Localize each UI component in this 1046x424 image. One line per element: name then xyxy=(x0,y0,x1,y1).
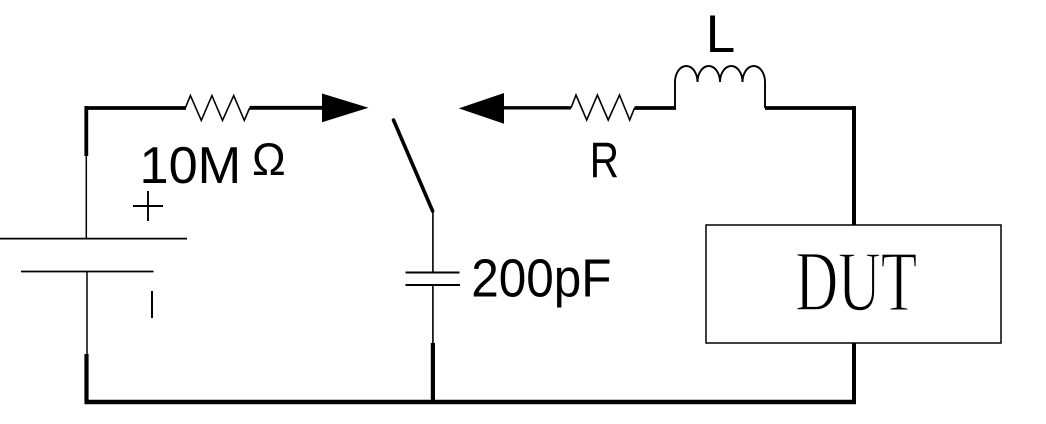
DUT box xyxy=(706,225,1001,343)
wire: capacitor to bottom rail thick xyxy=(431,343,435,402)
battery BT1 bottom plate xyxy=(21,271,154,273)
battery BT1 top plate xyxy=(0,238,187,240)
wire: left vertical thick xyxy=(84,106,88,156)
battery - polarity label xyxy=(151,291,153,318)
wire: top-left horizontal xyxy=(85,106,187,110)
wire: DUT to bottom rail xyxy=(852,343,856,402)
svg-text:10M: 10M xyxy=(140,137,242,195)
wire: battery to bottom rail thick xyxy=(84,354,88,402)
wire: switch to capacitor xyxy=(432,209,434,273)
resistor R2 zigzag xyxy=(571,95,635,120)
wire: bottom rail xyxy=(85,400,857,405)
wire: battery bottom lead thin xyxy=(86,272,88,355)
arrowhead toward switch (left-pointing) xyxy=(459,93,504,124)
battery + polarity label xyxy=(133,191,163,221)
svg-text:L: L xyxy=(706,5,735,64)
svg-text:200pF: 200pF xyxy=(471,248,611,308)
svg-text:Ω: Ω xyxy=(252,134,286,185)
capacitor C1 top plate xyxy=(406,272,460,274)
inductor L1 xyxy=(675,66,765,108)
capacitor C1 bottom plate xyxy=(406,284,461,286)
wire: left vertical thin xyxy=(85,156,87,239)
wire: arrow to resistor R2 xyxy=(500,106,571,109)
resistor R1 zigzag xyxy=(185,96,249,121)
wire: inductor to top-right corner xyxy=(765,106,855,110)
wire: capacitor bottom lead thin xyxy=(432,285,434,343)
switch S1 blade xyxy=(394,120,433,211)
wire: resistor R1 to arrow xyxy=(250,106,330,110)
arrowhead toward switch (right-pointing) xyxy=(322,94,369,123)
svg-text:DUT: DUT xyxy=(795,233,917,328)
wire: resistor R2 to inductor xyxy=(635,106,677,110)
svg-text:R: R xyxy=(590,132,619,188)
wire: right vertical into DUT xyxy=(852,106,856,225)
